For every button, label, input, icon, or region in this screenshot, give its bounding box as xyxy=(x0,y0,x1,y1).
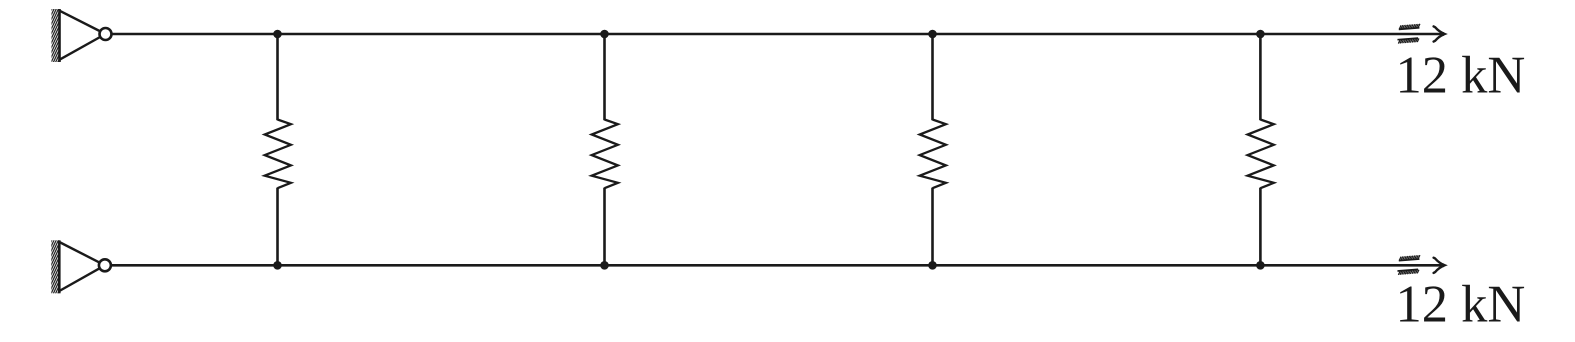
spring K4 xyxy=(1248,120,1274,189)
hatch mark below bottom arrow xyxy=(1397,269,1419,275)
svg-text:12 kN: 12 kN xyxy=(1396,46,1526,104)
wire K4 lower lead xyxy=(1259,188,1262,266)
wire K1 upper lead xyxy=(276,34,279,120)
force bottom arrowhead xyxy=(1434,258,1445,273)
node K4 bottom junction xyxy=(1256,261,1265,270)
node K1 top junction xyxy=(273,30,282,39)
wire K3 upper lead xyxy=(931,34,934,120)
pin support bottom hatched wall xyxy=(51,240,59,293)
hatch mark above bottom arrow xyxy=(1398,255,1420,261)
pin support bottom pin circle xyxy=(99,259,111,271)
pin support bottom base line xyxy=(58,240,61,293)
wire K3 lower lead xyxy=(931,188,934,266)
node K1 bottom junction xyxy=(273,261,282,270)
svg-text:12 kN: 12 kN xyxy=(1396,276,1526,334)
pin support top pin circle xyxy=(100,28,112,40)
pin support bottom triangle edge lower xyxy=(59,265,105,291)
spring K1 xyxy=(265,120,291,189)
wire K4 upper lead xyxy=(1259,34,1262,120)
wire K1 lower lead xyxy=(276,188,279,266)
node K4 top junction xyxy=(1256,30,1265,39)
pin support bottom triangle edge upper xyxy=(59,242,105,265)
spring K2 xyxy=(592,120,618,189)
pin support top hatched wall xyxy=(52,9,60,62)
pin support top triangle edge lower xyxy=(60,34,106,60)
wire K2 lower lead xyxy=(603,188,606,266)
spring K3 xyxy=(920,120,946,189)
wire bottom rail xyxy=(111,264,1443,267)
pin support top base line xyxy=(58,9,61,62)
force top arrowhead xyxy=(1434,26,1445,41)
node K3 bottom junction xyxy=(928,261,937,270)
wire K2 upper lead xyxy=(603,34,606,120)
node K2 top junction xyxy=(600,30,609,39)
node K3 top junction xyxy=(928,30,937,39)
hatch mark below top arrow xyxy=(1397,38,1419,44)
hatch mark above top arrow xyxy=(1398,24,1420,30)
node K2 bottom junction xyxy=(600,261,609,270)
pin support top triangle edge upper xyxy=(60,11,106,34)
wire top rail xyxy=(112,33,1444,36)
